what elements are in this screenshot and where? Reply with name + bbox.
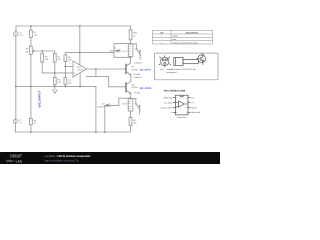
svg-text:-: - [74,65,75,68]
svg-text:2N2222: 2N2222 [132,68,139,71]
svg-text:3: 3 [161,41,162,44]
svg-text:Emitter: Emitter [134,92,141,95]
svg-text:1N4148: 1N4148 [109,49,117,52]
svg-text:penafidib / LM741 window compa: penafidib / LM741 window comparator [45,155,91,158]
svg-text:http://circuitlab.com/c6ua77p: http://circuitlab.com/c6ua77p [45,159,80,162]
svg-text:RLY2: RLY2 [122,103,128,106]
svg-text:base: base [173,38,177,41]
svg-text:LAB: LAB [16,159,23,163]
svg-text:RLY1: RLY1 [122,50,128,53]
svg-text:Fig 1: Fig 1 [160,68,164,71]
svg-text:and symbol.: and symbol. [167,71,178,74]
svg-text:Output: Output [191,106,197,109]
svg-text:Non-inv. Input: Non-inv. Input [161,106,173,109]
svg-text:emitter: emitter [173,35,179,38]
svg-text:N.C.: N.C. [191,97,195,100]
svg-text:PIN CONNECTIONS: PIN CONNECTIONS [164,90,186,93]
svg-text:CIRCUIT: CIRCUIT [10,154,22,159]
svg-text:1: 1 [161,35,162,38]
svg-text:(Top View): (Top View) [177,116,186,119]
svg-text:WC.OUTB: WC.OUTB [140,87,152,90]
svg-text:Simplified outline (TO-18; SOT: Simplified outline (TO-18; SOT-18) [167,68,196,71]
svg-text:DESCRIPTION: DESCRIPTION [186,31,199,34]
svg-text:1N4148: 1N4148 [97,105,105,108]
svg-text:WC.OUTA: WC.OUTA [140,68,152,71]
svg-text:LM741: LM741 [77,69,84,72]
svg-text:Inv. Input: Inv. Input [165,101,173,104]
svg-text:Offset Null: Offset Null [164,97,173,100]
svg-text:12 V: 12 V [19,34,24,37]
svg-text:collector, connected to the ca: collector, connected to the case [173,41,198,44]
svg-text:Collector: Collector [134,62,143,65]
svg-text:WC.INPUT: WC.INPUT [38,90,42,107]
svg-text:Collector: Collector [134,76,143,79]
svg-text:Offset Null: Offset Null [191,111,200,114]
svg-text:2: 2 [161,38,162,41]
svg-text:Emitter: Emitter [134,73,141,76]
svg-text:2N2222: 2N2222 [132,86,139,89]
